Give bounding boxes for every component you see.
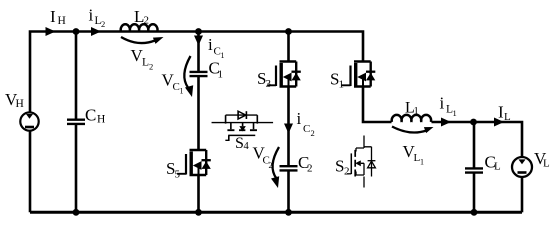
- svg-text:C: C: [85, 106, 96, 125]
- svg-text:H: H: [58, 15, 66, 27]
- svg-text:2: 2: [307, 163, 313, 175]
- svg-text:C: C: [303, 123, 310, 135]
- svg-text:1: 1: [221, 51, 225, 60]
- svg-text:L: L: [543, 158, 550, 170]
- svg-text:H: H: [97, 114, 105, 126]
- svg-text:I: I: [50, 7, 56, 26]
- svg-text:i: i: [440, 94, 445, 113]
- svg-text:1: 1: [339, 79, 345, 91]
- svg-text:L: L: [142, 57, 149, 69]
- svg-text:L: L: [504, 111, 511, 123]
- svg-text:2: 2: [144, 15, 150, 27]
- svg-text:5: 5: [175, 169, 181, 181]
- svg-text:4: 4: [244, 141, 250, 152]
- svg-text:H: H: [16, 98, 24, 110]
- svg-text:i: i: [89, 6, 94, 25]
- svg-text:i: i: [297, 109, 302, 128]
- svg-text:2: 2: [149, 62, 153, 72]
- svg-text:2: 2: [344, 166, 350, 178]
- svg-text:i: i: [208, 35, 213, 54]
- svg-text:1: 1: [420, 158, 424, 167]
- svg-text:2: 2: [269, 161, 273, 170]
- svg-text:2: 2: [101, 19, 105, 29]
- svg-text:L: L: [494, 161, 501, 173]
- svg-text:1: 1: [414, 106, 419, 117]
- svg-text:1: 1: [180, 87, 184, 96]
- svg-text:1: 1: [453, 108, 457, 118]
- svg-text:3: 3: [266, 78, 272, 90]
- svg-text:1: 1: [218, 69, 224, 81]
- svg-text:2: 2: [311, 128, 315, 138]
